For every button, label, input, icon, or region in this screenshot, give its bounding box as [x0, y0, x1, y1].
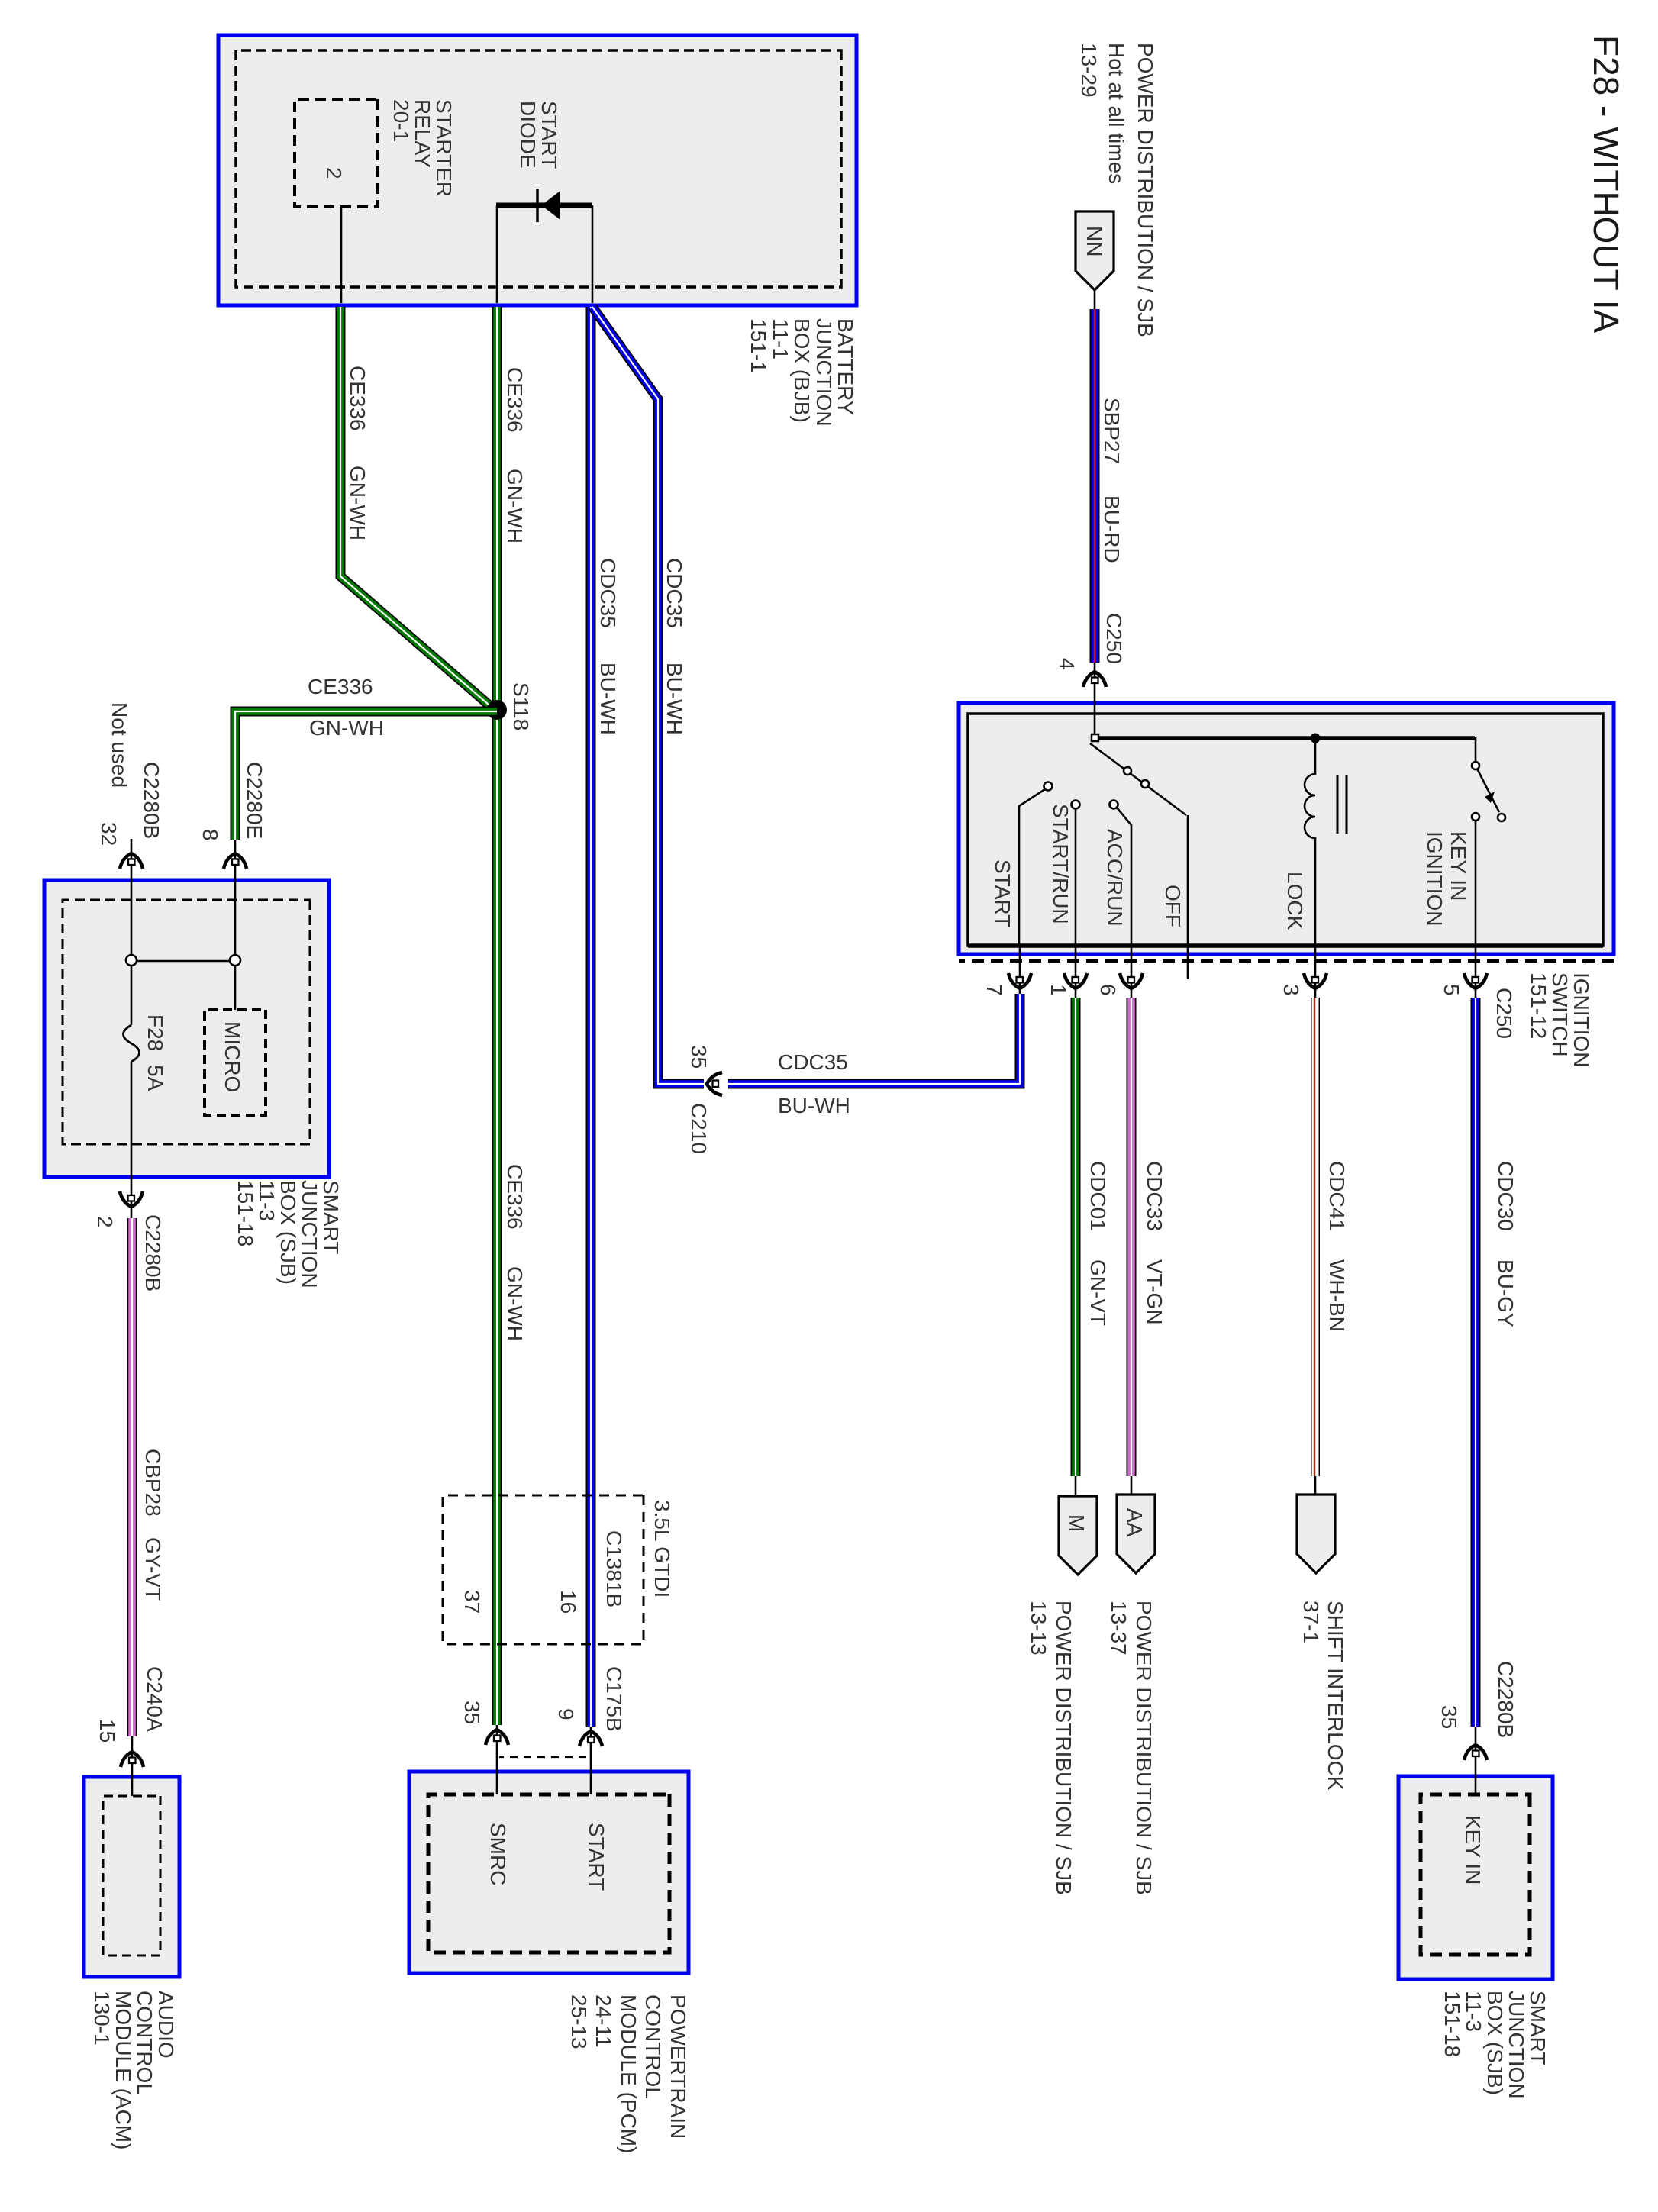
svg-text:C175B: C175B [602, 1666, 626, 1732]
svg-text:JUNCTION: JUNCTION [298, 1180, 321, 1288]
svg-text:M: M [1065, 1514, 1089, 1532]
svg-text:CDC30: CDC30 [1494, 1161, 1518, 1231]
ACC/RUN contact [1110, 801, 1118, 809]
svg-text:CDC35: CDC35 [596, 558, 620, 628]
svg-text:4: 4 [1055, 658, 1079, 670]
connector arrow pin 7 [1008, 973, 1031, 988]
connector shift interlock [1297, 1495, 1335, 1573]
wire pin 6 lead [1131, 946, 1133, 998]
svg-text:MICRO: MICRO [221, 1021, 244, 1092]
svg-text:NN: NN [1082, 226, 1106, 256]
svg-text:CONTROL: CONTROL [133, 1991, 156, 2095]
svg-text:CE336: CE336 [308, 675, 373, 698]
svg-text:2: 2 [93, 1216, 117, 1228]
svg-text:C250: C250 [1492, 988, 1516, 1039]
connector M [1059, 1496, 1097, 1575]
terminal circle pin 32 [126, 955, 137, 966]
3.5L GTDI dashed box [443, 1495, 644, 1644]
svg-text:GN-WH: GN-WH [309, 716, 384, 740]
BJB inner dashed outline [236, 50, 841, 287]
wire CDC30 BU-GY [1471, 998, 1481, 1727]
svg-text:IGNITION: IGNITION [1569, 972, 1593, 1067]
wire CE336 GN-WH to SJB pin 8 [235, 711, 497, 840]
svg-text:37: 37 [460, 1590, 484, 1614]
svg-text:2: 2 [322, 167, 346, 179]
MICRO box [205, 1010, 266, 1115]
svg-text:BATTERY: BATTERY [834, 318, 857, 415]
svg-text:LOCK: LOCK [1283, 872, 1307, 930]
powertrain control module box [409, 1772, 689, 1973]
svg-text:20-1: 20-1 [389, 99, 413, 142]
svg-text:START: START [991, 859, 1014, 927]
diode D1 start diode [496, 203, 592, 208]
wire C2280B lead into SJB [1475, 1727, 1477, 1794]
OFF contact line [1187, 815, 1189, 979]
svg-text:BOX (SJB): BOX (SJB) [276, 1180, 300, 1285]
svg-text:JUNCTION: JUNCTION [1505, 1991, 1528, 2099]
KEY IN IGNITION switch [1475, 737, 1477, 762]
svg-text:JUNCTION: JUNCTION [812, 318, 836, 427]
connector arrow PCM pin 35 [485, 1730, 508, 1745]
connector C210 chevron [707, 1072, 722, 1095]
starter relay box [295, 99, 378, 207]
svg-text:C2280B: C2280B [140, 762, 163, 839]
svg-text:IGNITION: IGNITION [1423, 831, 1447, 926]
svg-text:7: 7 [982, 984, 1006, 996]
svg-text:151-18: 151-18 [234, 1180, 257, 1246]
svg-text:Not used: Not used [108, 702, 131, 788]
svg-text:11-1: 11-1 [769, 318, 792, 360]
svg-text:VT-GN: VT-GN [1143, 1259, 1166, 1325]
ignition switch inner outline [968, 714, 1603, 946]
connector arrow C240A pin 15 [121, 1752, 144, 1767]
connector arrow C2280B pin 35 [1464, 1745, 1487, 1760]
svg-text:C2280B: C2280B [141, 1214, 165, 1291]
svg-text:3.5L GTDI: 3.5L GTDI [650, 1500, 674, 1598]
svg-text:STARTER: STARTER [432, 99, 456, 197]
svg-text:BU-WH: BU-WH [596, 663, 620, 735]
connector arrow pin 5 [1464, 973, 1487, 988]
ignition switch box [959, 703, 1614, 954]
audio control module box [84, 1777, 179, 1977]
svg-text:START: START [537, 101, 561, 169]
svg-text:POWERTRAIN: POWERTRAIN [666, 1994, 690, 2139]
START contact [1044, 782, 1053, 791]
START/RUN contact [1072, 801, 1080, 809]
svg-text:CDC41: CDC41 [1325, 1161, 1349, 1231]
terminal square pin 4 [1092, 734, 1098, 741]
svg-text:CBP28: CBP28 [141, 1449, 165, 1517]
svg-text:GN-WH: GN-WH [503, 469, 527, 543]
svg-text:151-12: 151-12 [1527, 972, 1550, 1039]
svg-text:24-11: 24-11 [592, 1994, 615, 2048]
connector arrow C2280B pin 32 [120, 853, 143, 869]
svg-text:11-3: 11-3 [255, 1180, 279, 1221]
svg-text:5A: 5A [144, 1065, 167, 1091]
svg-text:SWITCH: SWITCH [1548, 972, 1572, 1056]
wire AA tail [1131, 1476, 1133, 1496]
svg-text:GN-VT: GN-VT [1086, 1259, 1110, 1326]
switch wiper blade [1090, 743, 1186, 815]
connector NN [1076, 211, 1114, 290]
connector C250 dashed line [959, 959, 1614, 963]
svg-text:POWER DISTRIBUTION / SJB: POWER DISTRIBUTION / SJB [1134, 43, 1157, 337]
svg-text:BU-WH: BU-WH [663, 663, 686, 735]
svg-text:13-13: 13-13 [1027, 1601, 1050, 1656]
wire pin 32 not used [131, 839, 133, 955]
svg-text:KEY IN: KEY IN [1447, 831, 1470, 901]
svg-text:C210: C210 [687, 1103, 711, 1154]
svg-text:13-37: 13-37 [1107, 1601, 1131, 1656]
wire pin 3 lead [1314, 946, 1317, 998]
wire CBP28 GY-VT [127, 1218, 137, 1736]
svg-text:MODULE (PCM): MODULE (PCM) [617, 1994, 640, 2153]
wire between terminals [137, 960, 230, 963]
svg-text:AA: AA [1123, 1508, 1147, 1537]
svg-text:CDC35: CDC35 [663, 558, 686, 628]
wire CDC33 VT-GN [1127, 998, 1137, 1476]
svg-text:WH-BN: WH-BN [1325, 1259, 1349, 1332]
svg-text:35: 35 [687, 1045, 711, 1069]
svg-text:GN-WH: GN-WH [346, 466, 369, 540]
thick feed bus from pin 4 [1093, 736, 1475, 740]
connector arrow C250 pin 4 [1083, 672, 1106, 687]
wire CDC35 BU-WH from BJB [592, 307, 704, 1084]
wire pin 4 lead [1094, 663, 1096, 735]
svg-text:8: 8 [198, 829, 222, 841]
wire PCM pin 35 lead [496, 1725, 498, 1794]
svg-text:F28: F28 [144, 1014, 167, 1051]
svg-text:RELAY: RELAY [411, 99, 434, 168]
connector arrow pin 6 [1120, 973, 1143, 988]
svg-text:CDC33: CDC33 [1143, 1161, 1166, 1231]
connector AA [1117, 1495, 1155, 1573]
svg-text:SHIFT INTERLOCK: SHIFT INTERLOCK [1324, 1601, 1347, 1791]
wire pin 8 lead [234, 840, 237, 955]
svg-text:151-18: 151-18 [1440, 1991, 1464, 2057]
svg-text:151-1: 151-1 [747, 318, 770, 373]
wire terminal to MICRO [234, 966, 237, 1010]
wire CDC35 BU-WH to pin 7 [728, 994, 1020, 1084]
svg-text:F28 - WITHOUT IA: F28 - WITHOUT IA [1586, 35, 1626, 333]
wire pin 1 lead [1075, 946, 1077, 998]
svg-text:130-1: 130-1 [90, 1991, 114, 2046]
svg-text:SMART: SMART [319, 1180, 343, 1255]
svg-text:AUDIO: AUDIO [154, 1991, 178, 2059]
smart junction box (KEY IN) [1398, 1776, 1553, 1979]
wire SBP27 BU-RD [1090, 309, 1100, 663]
connector arrow pin 3 [1304, 973, 1327, 988]
wire CE336 GN-WH relay branch [340, 307, 495, 710]
wire CDC35 BU-WH straight to PCM [586, 307, 596, 1727]
svg-text:START/RUN: START/RUN [1049, 804, 1073, 924]
svg-text:POWER DISTRIBUTION / SJB: POWER DISTRIBUTION / SJB [1052, 1601, 1076, 1895]
svg-text:35: 35 [460, 1701, 484, 1724]
svg-text:BOX (SJB): BOX (SJB) [1483, 1991, 1507, 2095]
wire pin 5 lead [1475, 946, 1477, 998]
svg-text:13-29: 13-29 [1077, 43, 1101, 98]
svg-text:DIODE: DIODE [516, 101, 540, 169]
svg-text:37-1: 37-1 [1299, 1601, 1323, 1643]
wire NN tail [1094, 290, 1096, 309]
svg-text:C2280E: C2280E [243, 762, 266, 839]
wiper contact circles [1124, 767, 1131, 775]
svg-text:C1381B: C1381B [602, 1530, 626, 1607]
svg-text:3: 3 [1279, 984, 1303, 996]
wire C240A lead [131, 1736, 134, 1796]
svg-text:CE336: CE336 [503, 367, 527, 433]
connector arrow PCM pin 9 [579, 1731, 602, 1746]
fuse F28 5A [131, 966, 133, 1025]
svg-text:CE336: CE336 [346, 366, 369, 431]
svg-text:C250: C250 [1102, 613, 1126, 664]
svg-text:KEY IN: KEY IN [1461, 1815, 1485, 1885]
svg-text:C2280B: C2280B [1494, 1661, 1518, 1738]
svg-text:16: 16 [556, 1590, 580, 1614]
svg-text:GY-VT: GY-VT [141, 1537, 165, 1601]
connector bracket dashed [499, 1756, 586, 1758]
key-in chime plates [1337, 775, 1347, 834]
svg-text:SMART: SMART [1526, 1991, 1550, 2065]
svg-text:32: 32 [97, 822, 121, 846]
svg-text:ACC/RUN: ACC/RUN [1103, 829, 1127, 927]
svg-text:BU-GY: BU-GY [1494, 1259, 1518, 1327]
wire shift interlock tail [1314, 1476, 1317, 1496]
svg-text:C240A: C240A [143, 1666, 166, 1732]
svg-text:11-3: 11-3 [1462, 1991, 1485, 2032]
svg-text:1: 1 [1047, 984, 1070, 996]
wire relay pin 2 to BJB edge [340, 207, 343, 303]
wire CE336 GN-WH main [492, 307, 502, 1725]
wire diode anode to BJB edge [496, 205, 498, 303]
svg-text:SBP27: SBP27 [1100, 398, 1124, 464]
svg-text:START: START [585, 1823, 608, 1891]
connector arrow pin 1 [1064, 973, 1087, 988]
terminal circle pin 8 [230, 955, 240, 966]
svg-text:Hot at all times: Hot at all times [1105, 43, 1128, 184]
svg-text:CDC35: CDC35 [778, 1050, 848, 1074]
svg-text:BU-WH: BU-WH [778, 1094, 850, 1117]
svg-text:CE336: CE336 [503, 1164, 527, 1230]
splice S118 [487, 700, 507, 720]
svg-text:15: 15 [95, 1719, 119, 1743]
svg-text:35: 35 [1437, 1705, 1461, 1729]
svg-text:CDC01: CDC01 [1086, 1161, 1110, 1231]
svg-text:SMRC: SMRC [486, 1823, 510, 1885]
svg-text:9: 9 [554, 1708, 578, 1720]
connector arrow C2280B pin 2 [120, 1191, 143, 1207]
LOCK junction dot [1311, 734, 1321, 743]
svg-text:5: 5 [1440, 984, 1463, 996]
svg-text:BU-RD: BU-RD [1100, 495, 1124, 563]
wire M tail [1075, 1476, 1077, 1498]
wire pin 7 lead [1019, 946, 1021, 994]
LOCK coil [1305, 738, 1315, 946]
svg-text:BOX (BJB): BOX (BJB) [790, 318, 814, 423]
svg-text:MODULE (ACM): MODULE (ACM) [111, 1991, 135, 2149]
wire CDC41 WH-BN [1311, 998, 1320, 1476]
svg-text:25-13: 25-13 [567, 1994, 591, 2049]
svg-text:OFF: OFF [1161, 885, 1185, 927]
svg-text:S118: S118 [509, 682, 533, 730]
svg-text:CONTROL: CONTROL [641, 1994, 665, 2099]
svg-text:GN-WH: GN-WH [503, 1266, 527, 1341]
connector arrow C2280E pin 8 [224, 853, 247, 869]
wire CDC01 GN-VT [1071, 998, 1081, 1476]
svg-text:6: 6 [1096, 984, 1120, 996]
wire PCM pin 9 lead [590, 1727, 592, 1794]
battery junction box (BJB) [218, 35, 856, 305]
svg-text:POWER DISTRIBUTION / SJB: POWER DISTRIBUTION / SJB [1132, 1601, 1156, 1895]
smart junction box (fuse F28) [44, 880, 329, 1177]
wire diode cathode to BJB edge [592, 205, 594, 303]
